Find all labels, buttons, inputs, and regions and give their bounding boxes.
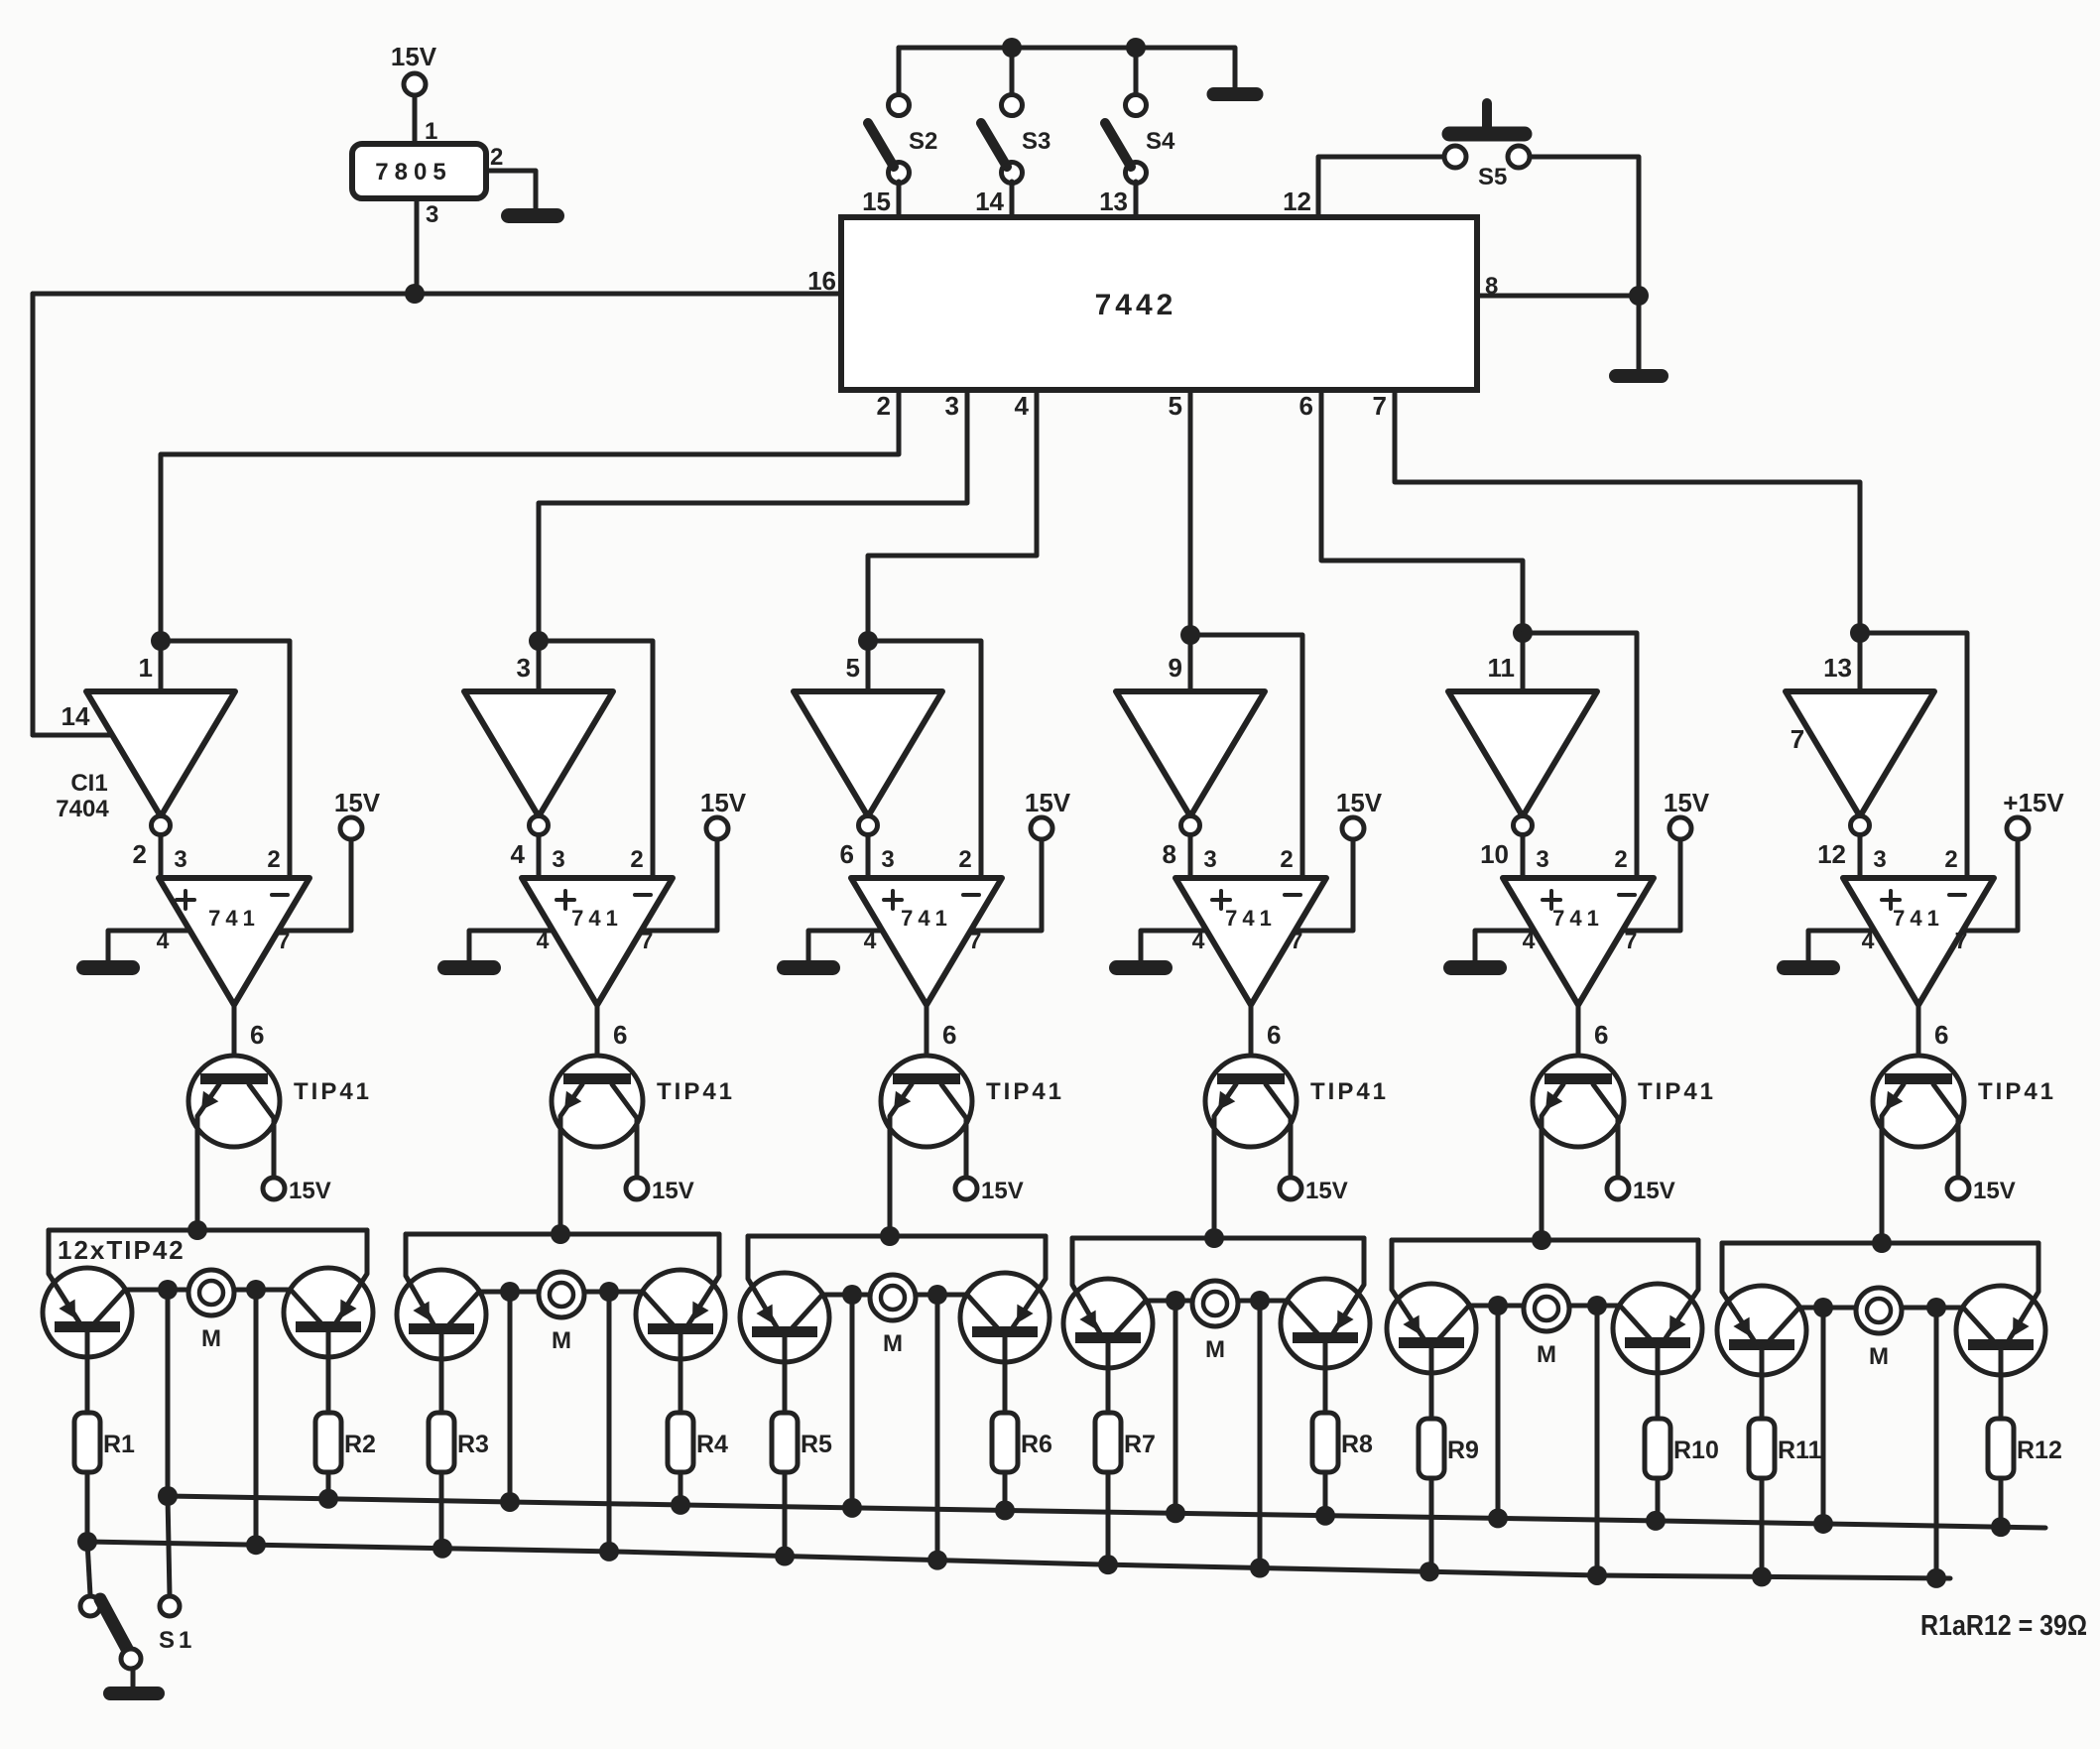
wire into CI1 7404 pin 14 xyxy=(33,733,112,738)
wire motor 3 right terminal to lower bus xyxy=(935,1295,940,1561)
motor M5 xyxy=(1524,1286,1569,1368)
transistor Q6b TIP42 (right) xyxy=(1956,1243,2045,1419)
node 15V terminal at U5 pin 7 xyxy=(1664,788,1710,839)
svg-text:2: 2 xyxy=(1614,846,1627,873)
resistor R10 xyxy=(1645,1419,1719,1478)
svg-text:1: 1 xyxy=(139,653,153,683)
op-amp U5 741 xyxy=(1503,878,1654,1005)
transistor Q6 TIP41 xyxy=(1873,1056,2056,1243)
svg-text:4: 4 xyxy=(511,839,526,869)
svg-text:6: 6 xyxy=(1299,391,1313,421)
wire R12 to upper bus xyxy=(1999,1478,2004,1527)
wire 7805 pin 2 to ground xyxy=(486,171,536,208)
wire U6 pin 6 to transistor Q6 base xyxy=(1916,1005,1921,1074)
wire R3 to lower bus xyxy=(439,1472,444,1549)
svg-text:CI1: CI1 xyxy=(70,770,107,797)
svg-text:6: 6 xyxy=(1594,1020,1608,1050)
junction on upper bus at x=2017 xyxy=(1991,1517,2011,1537)
junction on upper bus at x=1013 xyxy=(995,1500,1015,1520)
svg-text:4: 4 xyxy=(537,928,550,953)
op-amp U2 741 xyxy=(522,878,673,1005)
switch S2 xyxy=(868,95,937,184)
junction Q4 emitter on module 4 rail xyxy=(1204,1228,1224,1248)
wire lower return bus xyxy=(87,1542,1950,1578)
junction on lower bus at x=88 xyxy=(77,1532,97,1552)
svg-text:7: 7 xyxy=(1373,391,1387,421)
resistor R2 xyxy=(315,1413,376,1472)
svg-text:15V: 15V xyxy=(652,1178,694,1204)
wire module 5 emitter rail xyxy=(1392,1238,1698,1243)
wire S2 top terminal riser xyxy=(897,48,902,93)
junction on upper bus at x=331 xyxy=(318,1489,338,1509)
voltage regulator 7805 xyxy=(352,144,486,198)
junction on upper bus at x=1510 xyxy=(1488,1508,1508,1528)
label CI1 7404 xyxy=(56,770,109,822)
junction CI1 gate 3 input node xyxy=(858,631,878,651)
svg-text:7: 7 xyxy=(641,928,654,953)
ground at S1 xyxy=(103,1687,165,1700)
wire U3 pin 4 to ground xyxy=(808,931,882,960)
wire module 6 motor line xyxy=(1762,1306,2001,1311)
wire R8 to upper bus xyxy=(1323,1472,1328,1516)
wire R9 to lower bus xyxy=(1429,1478,1434,1571)
svg-text:15V: 15V xyxy=(1025,788,1071,817)
svg-text:13: 13 xyxy=(1823,653,1852,683)
svg-text:14: 14 xyxy=(62,701,90,731)
wire gate 2 output to 741 U2 pin 3 xyxy=(537,835,542,878)
resistor R5 xyxy=(772,1413,832,1472)
ground at U5 pin 4 xyxy=(1443,960,1507,975)
wire U4 pin 4 to ground xyxy=(1141,931,1206,960)
wire 7442 pin 4 to CI1 gate C input xyxy=(868,390,1037,641)
junction on lower bus at x=1776 xyxy=(1752,1566,1772,1586)
switch S3 xyxy=(981,95,1050,184)
transistor Q1b TIP42 (right) xyxy=(284,1230,373,1413)
junction CI1 gate 2 input node xyxy=(529,631,549,651)
wire module 4 motor line xyxy=(1108,1299,1325,1304)
wire motor 1 left terminal to upper bus xyxy=(166,1290,171,1496)
push-button S5 xyxy=(1444,103,1530,190)
svg-text:6: 6 xyxy=(613,1020,627,1050)
junction CI1 gate 6 input node xyxy=(1850,623,1870,643)
svg-text:R5: R5 xyxy=(801,1431,832,1458)
svg-text:4: 4 xyxy=(1192,928,1205,953)
wire gate 6 input to 741 U6 pin 2 xyxy=(1860,633,1967,878)
transistor Q5 TIP41 xyxy=(1533,1056,1716,1240)
inverter CI1 gate 3 xyxy=(794,691,942,816)
junction motor 1 left terminal xyxy=(158,1280,178,1300)
svg-text:6: 6 xyxy=(1267,1020,1281,1050)
wire motor 2 left terminal to upper bus xyxy=(508,1292,513,1502)
svg-text:TIP41: TIP41 xyxy=(1978,1078,2056,1105)
svg-text:7: 7 xyxy=(278,928,291,953)
junction Q6 emitter on module 6 rail xyxy=(1872,1233,1892,1253)
junction on lower bus at x=791 xyxy=(775,1547,795,1566)
wire module 3 emitter rail xyxy=(748,1234,1046,1239)
wire gate 3 input to 741 U3 pin 2 xyxy=(868,641,981,878)
svg-text:7404: 7404 xyxy=(56,796,109,822)
svg-text:2: 2 xyxy=(490,144,503,171)
node 15V terminal at U6 pin 7 xyxy=(2003,788,2064,839)
wire 7442 pin 12 up to S5 xyxy=(1318,157,1444,217)
junction on lower bus at x=1117 xyxy=(1098,1555,1118,1574)
node 15V terminal at U2 pin 7 xyxy=(700,788,747,839)
svg-text:4: 4 xyxy=(157,928,170,953)
svg-text:R11: R11 xyxy=(1778,1437,1822,1464)
op-amp U3 741 xyxy=(851,878,1002,1005)
transistor Q6a TIP42 (left) xyxy=(1717,1243,1806,1419)
svg-text:R4: R4 xyxy=(696,1431,728,1458)
switch S1 xyxy=(80,1596,195,1687)
wire module 4 emitter rail xyxy=(1072,1236,1364,1241)
junction CI1 gate 4 input node xyxy=(1180,625,1200,645)
svg-text:2: 2 xyxy=(1944,846,1957,873)
resistor R6 xyxy=(992,1413,1052,1472)
svg-text:3: 3 xyxy=(1873,846,1886,873)
node 15V terminal at Q6 collector xyxy=(1947,1178,2016,1204)
wire motor 2 right terminal to lower bus xyxy=(607,1292,612,1552)
wire 5V rail down left side to CI1 pin 14 xyxy=(31,294,36,735)
transistor Q2a TIP42 (left) xyxy=(397,1234,486,1413)
wire 7442 pin 2 to CI1 gate A input xyxy=(161,390,899,641)
wire motor 6 left terminal to upper bus xyxy=(1821,1308,1826,1524)
svg-text:8: 8 xyxy=(1163,839,1176,869)
svg-text:3: 3 xyxy=(1536,846,1548,873)
wire gate 5 input stub xyxy=(1521,633,1526,691)
node 15V terminal at U3 pin 7 xyxy=(1025,788,1071,839)
junction on upper bus at x=514 xyxy=(500,1492,520,1512)
wire R10 to upper bus xyxy=(1656,1478,1661,1521)
transistor Q2b TIP42 (right) xyxy=(636,1234,725,1413)
svg-text:3: 3 xyxy=(945,391,959,421)
ground at U3 pin 4 xyxy=(777,960,840,975)
junction on upper bus at x=1185 xyxy=(1166,1503,1185,1523)
transistor Q3a TIP42 (left) xyxy=(740,1236,829,1413)
resistor R9 xyxy=(1419,1419,1479,1478)
resistor R4 xyxy=(668,1413,728,1472)
wire S3 to 7442 pin 14 xyxy=(1010,182,1015,217)
svg-text:R12: R12 xyxy=(2017,1437,2062,1464)
svg-text:TIP41: TIP41 xyxy=(294,1078,372,1105)
resistor R1 xyxy=(74,1413,135,1472)
wire S4 to 7442 pin 13 xyxy=(1134,182,1139,217)
inverter CI1 gate 1 xyxy=(86,691,235,816)
node 15V supply terminal xyxy=(391,42,437,95)
wire upper return bus xyxy=(168,1496,2045,1528)
wire gate 5 output to 741 U5 pin 3 xyxy=(1521,835,1526,878)
svg-text:3: 3 xyxy=(552,846,564,873)
wire 7442 pin 5 to CI1 gate D input xyxy=(1188,390,1193,635)
wire 15V terminal to 7805 pin 1 xyxy=(413,95,418,144)
svg-text:S4: S4 xyxy=(1146,128,1175,155)
wire module 6 emitter rail xyxy=(1722,1241,2038,1246)
wire 7442 pin 3 to CI1 gate B input xyxy=(539,390,967,641)
svg-text:1: 1 xyxy=(425,118,437,145)
wire R2 to upper bus xyxy=(326,1472,331,1499)
node 15V terminal at Q3 collector xyxy=(955,1178,1024,1204)
wire gate 1 input stub xyxy=(159,641,164,691)
resistor R11 xyxy=(1749,1419,1822,1478)
svg-text:R3: R3 xyxy=(457,1431,489,1458)
junction on lower bus at x=1610 xyxy=(1587,1565,1607,1585)
junction CI1 gate 5 input node xyxy=(1513,623,1533,643)
junction pin 8 / S5 ground node xyxy=(1629,286,1649,306)
wire R6 to upper bus xyxy=(1003,1472,1008,1510)
junction motor 1 right terminal xyxy=(246,1280,266,1300)
junction on upper bus at x=169 xyxy=(158,1486,178,1506)
ground at 7442 pin 8 xyxy=(1609,369,1668,383)
svg-text:+15V: +15V xyxy=(2003,788,2064,817)
junction on lower bus at x=614 xyxy=(599,1542,619,1562)
svg-text:15: 15 xyxy=(862,187,891,216)
wire module 3 motor line xyxy=(785,1293,1005,1298)
op-amp U4 741 xyxy=(1175,878,1326,1005)
ground at 7805 pin 2 xyxy=(501,208,564,223)
svg-text:S3: S3 xyxy=(1022,128,1050,155)
wire U4 pin 7 to 15V xyxy=(1296,839,1353,931)
junction 7805 output on 5V rail xyxy=(405,284,425,304)
junction CI1 gate 1 input node xyxy=(151,631,171,651)
junction on upper bus at x=1336 xyxy=(1315,1506,1335,1526)
wire R4 to upper bus xyxy=(679,1472,683,1505)
wire U1 pin 7 to 15V xyxy=(279,839,351,931)
wire motor 5 right terminal to lower bus xyxy=(1595,1306,1600,1575)
wire gate 1 input to 741 U1 pin 2 xyxy=(161,641,290,878)
junction on lower bus at x=1952 xyxy=(1926,1568,1946,1588)
junction Q2 emitter on module 2 rail xyxy=(551,1224,570,1244)
svg-text:9: 9 xyxy=(1169,653,1182,683)
wire U2 pin 7 to 15V xyxy=(642,839,717,931)
junction Q1 emitter on module 1 rail xyxy=(187,1220,207,1240)
junction on upper bus at x=686 xyxy=(671,1495,690,1515)
inverter bubble gate 6 xyxy=(1851,816,1870,835)
wire R1 node down to S1 pole xyxy=(87,1542,90,1595)
svg-text:M: M xyxy=(1869,1343,1889,1370)
svg-text:S2: S2 xyxy=(909,128,937,155)
node 15V terminal at Q2 collector xyxy=(626,1178,694,1204)
wire module 2 emitter rail xyxy=(406,1232,719,1237)
svg-text:741: 741 xyxy=(901,906,952,931)
wire gate 2 input to 741 U2 pin 2 xyxy=(539,641,653,878)
switch S4 xyxy=(1105,95,1175,184)
wire S4 top terminal riser xyxy=(1134,48,1139,93)
junction on lower bus at x=446 xyxy=(432,1539,452,1559)
wire gate 3 input stub xyxy=(866,641,871,691)
IC 7442 decoder xyxy=(841,217,1477,390)
svg-text:M: M xyxy=(883,1330,903,1357)
svg-text:7805: 7805 xyxy=(375,159,451,186)
ground at top bus right end xyxy=(1207,87,1264,101)
transistor Q2 TIP41 xyxy=(552,1056,735,1234)
svg-text:3: 3 xyxy=(1203,846,1216,873)
transistor Q5a TIP42 (left) xyxy=(1387,1240,1476,1419)
inverter bubble gate 4 xyxy=(1181,816,1200,835)
wire 7442 pin 8 to ground node xyxy=(1477,294,1639,299)
wire 7442 pin 7 to CI1 gate F input xyxy=(1395,390,1860,633)
svg-text:5: 5 xyxy=(1169,391,1182,421)
node 15V terminal at U4 pin 7 xyxy=(1336,788,1383,839)
wire gate 5 input to 741 U5 pin 2 xyxy=(1523,633,1637,878)
svg-text:R1aR12 = 39Ω: R1aR12 = 39Ω xyxy=(1920,1610,2087,1642)
svg-text:15V: 15V xyxy=(1633,1178,1675,1204)
ground at U1 pin 4 xyxy=(76,960,140,975)
junction motor 2 right terminal xyxy=(599,1282,619,1302)
inverter CI1 gate 6 xyxy=(1786,691,1934,816)
wire U1 pin 6 to transistor Q1 base xyxy=(232,1005,237,1074)
transistor Q1a TIP42 (left) xyxy=(43,1230,132,1413)
svg-text:4: 4 xyxy=(1523,928,1536,953)
node 15V terminal at Q5 collector xyxy=(1607,1178,1675,1204)
junction on upper bus at x=1669 xyxy=(1646,1511,1666,1531)
svg-text:15V: 15V xyxy=(391,42,437,71)
svg-text:7: 7 xyxy=(1625,928,1638,953)
svg-text:741: 741 xyxy=(208,906,260,931)
svg-text:3: 3 xyxy=(517,653,531,683)
svg-text:10: 10 xyxy=(1480,839,1509,869)
junction motor 5 left terminal xyxy=(1488,1296,1508,1315)
motor M2 xyxy=(539,1272,584,1354)
transistor Q1 TIP41 xyxy=(188,1056,372,1230)
svg-text:741: 741 xyxy=(1225,906,1277,931)
wire U3 pin 6 to transistor Q3 base xyxy=(925,1005,929,1074)
motor M6 xyxy=(1856,1288,1902,1370)
junction on lower bus at x=945 xyxy=(927,1551,947,1570)
junction motor 2 left terminal xyxy=(500,1282,520,1302)
svg-text:741: 741 xyxy=(1552,906,1604,931)
wire U5 pin 4 to ground xyxy=(1475,931,1534,960)
svg-text:S1: S1 xyxy=(159,1627,195,1654)
wire top bus joining S2 S3 S4 to ground xyxy=(899,48,1235,87)
svg-text:15V: 15V xyxy=(1305,1178,1348,1204)
wire motor 6 right terminal to lower bus xyxy=(1934,1308,1939,1578)
junction motor 4 left terminal xyxy=(1166,1291,1185,1311)
junction on lower bus at x=1270 xyxy=(1250,1559,1270,1578)
svg-text:S5: S5 xyxy=(1478,164,1507,190)
wire R1 to lower bus xyxy=(85,1472,90,1542)
svg-text:TIP41: TIP41 xyxy=(1310,1078,1389,1105)
svg-text:741: 741 xyxy=(1893,906,1944,931)
wire U5 pin 7 to 15V xyxy=(1623,839,1680,931)
junction motor 3 right terminal xyxy=(927,1285,947,1305)
svg-text:R8: R8 xyxy=(1341,1431,1373,1458)
svg-text:R10: R10 xyxy=(1673,1437,1719,1464)
junction motor 6 right terminal xyxy=(1926,1298,1946,1317)
wire motor 4 right terminal to lower bus xyxy=(1258,1301,1263,1568)
wire gate 4 input to 741 U4 pin 2 xyxy=(1190,635,1302,878)
svg-text:6: 6 xyxy=(840,839,854,869)
svg-text:2: 2 xyxy=(267,846,280,873)
svg-text:12xTIP42: 12xTIP42 xyxy=(58,1235,185,1265)
svg-text:12: 12 xyxy=(1817,839,1846,869)
wire S3 top terminal riser xyxy=(1010,48,1015,93)
wire motor 1 left node down to S1 throw xyxy=(168,1496,170,1595)
wire motor 3 left terminal to upper bus xyxy=(850,1295,855,1508)
svg-text:15V: 15V xyxy=(289,1178,331,1204)
inverter CI1 gate 2 xyxy=(464,691,613,816)
svg-text:14: 14 xyxy=(975,187,1004,216)
svg-text:15V: 15V xyxy=(1973,1178,2016,1204)
svg-text:15V: 15V xyxy=(700,788,747,817)
svg-text:TIP41: TIP41 xyxy=(986,1078,1064,1105)
wire motor 4 left terminal to upper bus xyxy=(1174,1301,1178,1513)
transistor Q5b TIP42 (right) xyxy=(1613,1240,1702,1419)
resistor R3 xyxy=(429,1413,489,1472)
svg-text:R7: R7 xyxy=(1124,1431,1156,1458)
svg-text:TIP41: TIP41 xyxy=(1638,1078,1716,1105)
inverter bubble gate 2 xyxy=(530,816,549,835)
svg-text:3: 3 xyxy=(174,846,186,873)
svg-text:7: 7 xyxy=(1955,928,1968,953)
svg-text:6: 6 xyxy=(250,1020,264,1050)
resistor R12 xyxy=(1988,1419,2062,1478)
svg-text:4: 4 xyxy=(864,928,877,953)
svg-text:6: 6 xyxy=(942,1020,956,1050)
svg-text:5: 5 xyxy=(846,653,860,683)
svg-text:15V: 15V xyxy=(334,788,381,817)
svg-text:7: 7 xyxy=(969,928,982,953)
wire gate 6 output to 741 U6 pin 3 xyxy=(1858,835,1863,878)
svg-text:R2: R2 xyxy=(344,1431,376,1458)
svg-text:2: 2 xyxy=(958,846,971,873)
svg-text:4: 4 xyxy=(1862,928,1875,953)
transistor Q3b TIP42 (right) xyxy=(960,1236,1050,1413)
wire motor 1 right terminal to lower bus xyxy=(254,1290,259,1545)
svg-text:M: M xyxy=(1537,1341,1556,1368)
wire module 1 emitter rail xyxy=(49,1228,367,1233)
wire R11 to lower bus xyxy=(1760,1478,1765,1576)
wire module 5 motor line xyxy=(1431,1304,1658,1309)
svg-text:13: 13 xyxy=(1099,187,1128,216)
junction on upper bus at x=1838 xyxy=(1813,1514,1833,1534)
transistor Q4a TIP42 (left) xyxy=(1063,1238,1153,1413)
svg-text:12: 12 xyxy=(1283,187,1311,216)
node 15V terminal at U1 pin 7 xyxy=(334,788,381,839)
junction Q3 emitter on module 3 rail xyxy=(880,1226,900,1246)
svg-text:2: 2 xyxy=(877,391,891,421)
wire motor 5 left terminal to upper bus xyxy=(1496,1306,1501,1518)
junction on upper bus at x=859 xyxy=(842,1498,862,1518)
junction on lower bus at x=258 xyxy=(246,1535,266,1555)
transistor Q4 TIP41 xyxy=(1205,1056,1389,1238)
resistor R7 xyxy=(1095,1413,1156,1472)
wire S5 to ground node xyxy=(1530,157,1639,296)
motor M4 xyxy=(1192,1281,1238,1363)
junction Q5 emitter on module 5 rail xyxy=(1532,1230,1551,1250)
svg-text:15V: 15V xyxy=(981,1178,1024,1204)
svg-text:2: 2 xyxy=(133,839,147,869)
svg-text:7: 7 xyxy=(1791,724,1804,754)
ground at U6 pin 4 xyxy=(1777,960,1840,975)
svg-text:15V: 15V xyxy=(1336,788,1383,817)
svg-text:2: 2 xyxy=(1280,846,1293,873)
svg-text:3: 3 xyxy=(426,201,438,228)
wire 7442 pin 6 to CI1 gate E input xyxy=(1321,390,1523,633)
motor M1 xyxy=(188,1270,234,1352)
svg-text:741: 741 xyxy=(571,906,623,931)
svg-text:R1: R1 xyxy=(103,1431,135,1458)
wire U2 pin 6 to transistor Q2 base xyxy=(595,1005,600,1074)
wire U3 pin 7 to 15V xyxy=(971,839,1042,931)
junction top bus above S4 xyxy=(1126,38,1146,58)
svg-text:M: M xyxy=(1205,1336,1225,1363)
wire R7 to lower bus xyxy=(1106,1472,1111,1564)
wire U4 pin 6 to transistor Q4 base xyxy=(1249,1005,1254,1074)
svg-text:11: 11 xyxy=(1488,653,1516,683)
node 15V terminal at Q1 collector xyxy=(263,1178,331,1204)
op-amp U6 741 xyxy=(1843,878,1994,1005)
junction motor 4 right terminal xyxy=(1250,1291,1270,1311)
wire 7805 pin 3 down to 5V rail xyxy=(415,198,420,294)
